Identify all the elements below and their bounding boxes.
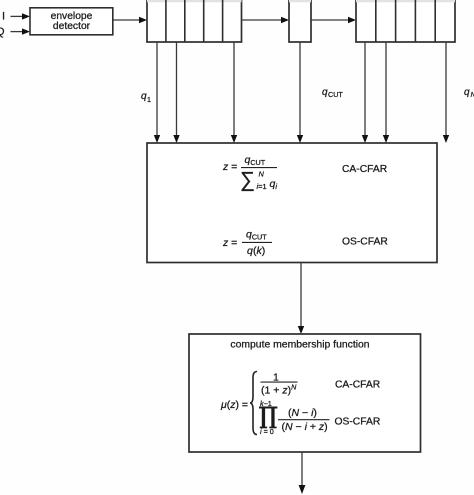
svg-text:k−1: k−1 bbox=[260, 399, 272, 408]
label q1 bbox=[141, 91, 151, 104]
formula z = qCUT / q(k) (OS-CFAR) bbox=[222, 228, 272, 256]
wire membership box to output bbox=[299, 452, 306, 494]
wire I to envelope detector bbox=[11, 13, 31, 19]
svg-text:envelope: envelope bbox=[51, 11, 93, 22]
compute membership function box U3 bbox=[189, 334, 421, 452]
svg-text:(N − i + z): (N − i + z) bbox=[282, 421, 328, 433]
formula mu(z) with case brace bbox=[220, 372, 330, 437]
wire qN tap down to CFAR box bbox=[443, 42, 449, 143]
label OS-CFAR (box U2) bbox=[342, 237, 388, 248]
svg-text:μ(z) =: μ(z) = bbox=[220, 399, 248, 411]
envelope detector block U1 bbox=[30, 8, 113, 35]
svg-text:N: N bbox=[471, 90, 474, 99]
wire CFAR box to membership box bbox=[298, 263, 304, 334]
svg-text:detector: detector bbox=[53, 21, 91, 32]
svg-text:CA-CFAR: CA-CFAR bbox=[342, 164, 387, 175]
wire qCUT tap down to CFAR box bbox=[297, 42, 303, 143]
svg-text:CUT: CUT bbox=[328, 90, 343, 99]
node I input label bbox=[2, 11, 5, 23]
svg-text:z =: z = bbox=[222, 161, 237, 173]
svg-text:OS-CFAR: OS-CFAR bbox=[342, 237, 388, 248]
case 2 product formula bbox=[259, 407, 277, 429]
svg-text:(k): (k) bbox=[253, 245, 265, 257]
svg-text:CA-CFAR: CA-CFAR bbox=[335, 380, 380, 391]
svg-text:z =: z = bbox=[222, 237, 237, 249]
svg-text:1: 1 bbox=[147, 95, 151, 104]
formula z = qCUT / sum qi (CA-CFAR) bbox=[222, 154, 277, 192]
wire left register to CUT cell bbox=[242, 17, 290, 23]
wire CUT cell to right shift register bbox=[311, 17, 356, 23]
left shift register cells q1..q bbox=[147, 0, 242, 42]
svg-text:compute membership function: compute membership function bbox=[230, 340, 369, 351]
label qN bbox=[464, 87, 474, 99]
svg-text:N: N bbox=[259, 170, 265, 179]
svg-text:Q: Q bbox=[0, 26, 5, 38]
svg-text:(N − i): (N − i) bbox=[288, 407, 317, 419]
label qCUT bbox=[322, 87, 343, 99]
svg-text:OS-CFAR: OS-CFAR bbox=[335, 417, 381, 428]
label CA-CFAR (box U2) bbox=[342, 164, 387, 175]
CFAR ratio computation box U2 bbox=[147, 143, 437, 263]
wire q2 tap down to CFAR box bbox=[173, 42, 179, 143]
wire envelope detector to left shift register bbox=[113, 17, 147, 23]
label OS-CFAR (box U3) bbox=[335, 417, 381, 428]
wire q1 tap down to CFAR box bbox=[154, 42, 160, 143]
label CA-CFAR (box U3) bbox=[335, 380, 380, 391]
node Q input label bbox=[0, 26, 5, 38]
wire right register tap 1 down to CFAR box bbox=[362, 42, 368, 143]
wire qN/2 tap down to CFAR box bbox=[231, 42, 237, 143]
right shift register cells ..qN bbox=[356, 0, 455, 42]
CUT cell (cell under test) bbox=[289, 0, 311, 42]
wire right register tap 2 down to CFAR box bbox=[383, 42, 389, 143]
svg-text:i=1: i=1 bbox=[257, 182, 267, 191]
svg-text:q: q bbox=[464, 87, 470, 98]
svg-text:∑: ∑ bbox=[240, 169, 255, 192]
svg-text:i = 0: i = 0 bbox=[260, 427, 274, 436]
svg-text:I: I bbox=[2, 11, 5, 23]
case brace bbox=[250, 372, 257, 435]
wire Q to envelope detector bbox=[11, 28, 31, 34]
